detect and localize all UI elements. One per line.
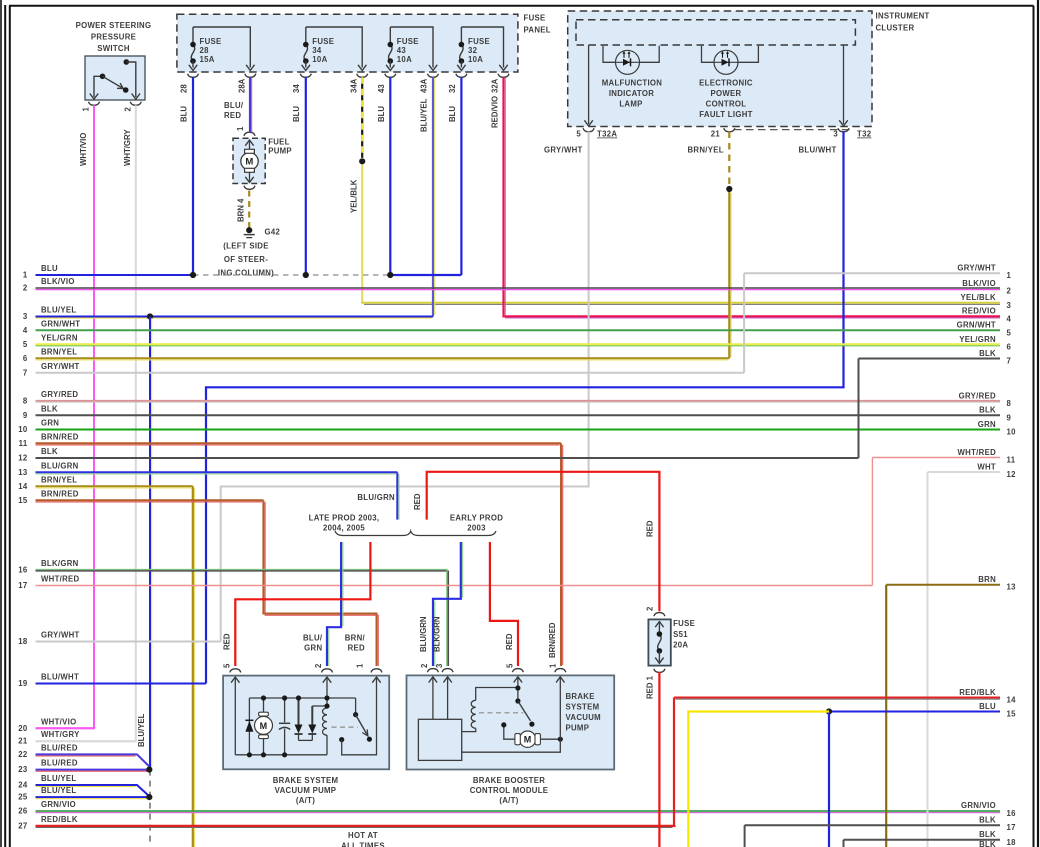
- svg-text:EARLY PROD: EARLY PROD: [450, 514, 503, 523]
- ground rail: [235, 754, 327, 756]
- wire BLK right row 17 to page bottom: [744, 825, 746, 847]
- splice on BRN/YEL: [726, 186, 732, 192]
- svg-text:15: 15: [1007, 710, 1017, 719]
- svg-text:3: 3: [435, 663, 444, 668]
- wire row 7 GRY/WHT (left): [36, 372, 745, 374]
- wire BLU down from splice to page bottom: [828, 712, 830, 847]
- svg-text:11: 11: [1007, 456, 1016, 465]
- svg-text:YEL/BLK: YEL/BLK: [961, 293, 997, 302]
- fuse panel (dashed box): [177, 14, 518, 72]
- svg-text:GRN/VIO: GRN/VIO: [41, 800, 76, 809]
- svg-text:RED: RED: [505, 633, 514, 650]
- svg-text:RED: RED: [224, 111, 241, 120]
- svg-text:14: 14: [18, 482, 28, 491]
- svg-text:5: 5: [506, 663, 515, 668]
- svg-text:32: 32: [448, 84, 457, 93]
- wire row 10 GRN (left): [36, 429, 1001, 431]
- module mech link dashed: [479, 712, 523, 714]
- svg-text:BRN/YEL: BRN/YEL: [688, 146, 724, 155]
- svg-text:5: 5: [576, 130, 581, 139]
- capacitor C1: [284, 698, 286, 722]
- svg-text:GRN: GRN: [978, 420, 996, 429]
- svg-text:BLK: BLK: [979, 406, 996, 415]
- svg-text:16: 16: [18, 566, 28, 575]
- wire row 24 BLU/YEL: [36, 785, 150, 796]
- connector pin 1 of switch: [89, 102, 100, 106]
- svg-text:24: 24: [18, 781, 28, 790]
- svg-text:43: 43: [377, 84, 386, 93]
- svg-text:BLU: BLU: [377, 106, 386, 122]
- svg-text:BLU/YEL: BLU/YEL: [41, 774, 76, 783]
- splice on YEL/BLK: [359, 158, 365, 164]
- svg-text:10A: 10A: [312, 55, 327, 64]
- svg-text:17: 17: [18, 581, 27, 590]
- splice rows 24/25: [146, 794, 152, 800]
- wire BRN/YEL lower to row 6: [728, 192, 730, 358]
- wire WHT/VIO from switch pin 1: [36, 105, 95, 728]
- svg-text:FUSE: FUSE: [468, 37, 490, 46]
- svg-text:BLU/YEL: BLU/YEL: [420, 98, 429, 132]
- pump motor M: [263, 698, 265, 713]
- wire BLU fuse 34 stem: [305, 77, 307, 275]
- svg-text:BLU/YEL: BLU/YEL: [41, 786, 76, 795]
- svg-text:23: 23: [18, 765, 28, 774]
- svg-text:34: 34: [292, 84, 301, 93]
- wire BRN/YEL row14 vertical to page bottom: [192, 486, 194, 847]
- wire YEL/BLK lower (to right row 3): [361, 165, 363, 303]
- wire BLU fuse 32 stem to row 1: [460, 77, 462, 275]
- wire row 25 BLU/YEL: [36, 796, 150, 798]
- connector T32 dashed line: [734, 129, 852, 131]
- wire row 4 GRN/WHT (left): [36, 329, 1001, 331]
- pump pin arrows: [231, 677, 239, 683]
- module pin 5 connector: [512, 669, 523, 673]
- svg-text:VACUUM PUMP: VACUUM PUMP: [275, 786, 337, 795]
- wire row 7 BLK (right): [859, 358, 1001, 360]
- wire WHT riser to page bottom: [927, 472, 929, 847]
- svg-text:RED/BLK: RED/BLK: [41, 815, 78, 824]
- svg-text:CONTROL MODULE: CONTROL MODULE: [470, 786, 549, 795]
- relay coil L1: [326, 677, 328, 706]
- svg-text:2: 2: [1007, 287, 1012, 296]
- svg-text:BLU: BLU: [292, 106, 301, 122]
- module pin 1 connector: [555, 669, 566, 673]
- wire row 18 BLK (right): [844, 839, 1001, 841]
- svg-text:(LEFT SIDE: (LEFT SIDE: [223, 242, 268, 251]
- svg-text:18: 18: [18, 637, 28, 646]
- svg-text:BLU/YEL: BLU/YEL: [137, 713, 146, 747]
- svg-text:2003: 2003: [467, 524, 486, 533]
- svg-text:BLK/GRN: BLK/GRN: [41, 559, 79, 568]
- svg-text:20: 20: [18, 724, 28, 733]
- svg-text:3: 3: [833, 130, 838, 139]
- svg-text:BLK/VIO: BLK/VIO: [41, 277, 75, 286]
- wire row 16 BLK/GRN (green+black): [36, 569, 448, 571]
- wire GRY/WHT right row1 riser to row 7: [743, 273, 745, 373]
- wire BLU/YEL vertical to rows 22-25: [149, 317, 151, 770]
- svg-text:ING COLUMN): ING COLUMN): [218, 269, 274, 278]
- wire RED/BLK riser to row 27: [673, 698, 675, 826]
- svg-text:11: 11: [19, 439, 28, 448]
- svg-text:BLK: BLK: [41, 447, 58, 456]
- zener diode Z2: [311, 706, 313, 725]
- svg-text:12: 12: [1007, 470, 1017, 479]
- junction row1/fuse43: [387, 272, 393, 278]
- top rail: [249, 697, 355, 699]
- svg-text:M: M: [260, 721, 268, 731]
- svg-text:T32: T32: [857, 130, 872, 139]
- module motor right lead to pin1: [540, 738, 560, 740]
- fuse S51 bottom connector: [654, 669, 665, 673]
- row 1 dashed link between fuse stems: [193, 274, 390, 276]
- svg-text:2: 2: [420, 663, 429, 668]
- wire BLK row12 riser to right row 7: [858, 359, 860, 459]
- wire row 3 BLU/YEL (left): [36, 316, 434, 318]
- module pin 2/3 lines into block: [432, 677, 434, 720]
- svg-text:4: 4: [1007, 314, 1012, 323]
- svg-text:BLK: BLK: [979, 840, 996, 847]
- svg-text:BRN/YEL: BRN/YEL: [41, 347, 77, 356]
- instrument cluster inner dashed box: [576, 20, 855, 45]
- svg-text:WHT: WHT: [977, 462, 996, 471]
- svg-text:RED: RED: [413, 493, 422, 510]
- svg-text:G42: G42: [265, 228, 281, 237]
- svg-text:CLUSTER: CLUSTER: [876, 24, 915, 33]
- malfunction indicator lamp: [603, 46, 659, 63]
- module motor M: [519, 731, 535, 747]
- svg-text:YEL/GRN: YEL/GRN: [41, 334, 78, 343]
- fixed contact to pin 1: [342, 677, 377, 755]
- wire row 9 BLK (left): [36, 414, 1001, 416]
- module pin 3 connector: [442, 669, 453, 673]
- svg-text:LATE PROD 2003,: LATE PROD 2003,: [309, 514, 380, 523]
- svg-text:PUMP: PUMP: [566, 724, 590, 733]
- svg-text:LAMP: LAMP: [619, 100, 642, 109]
- svg-text:YEL/BLK: YEL/BLK: [350, 179, 359, 213]
- wire row 17 BLK (right): [745, 824, 1000, 826]
- svg-text:BLK: BLK: [979, 349, 996, 358]
- svg-text:GRY/WHT: GRY/WHT: [544, 146, 583, 155]
- module inner block: [418, 719, 461, 760]
- svg-text:34: 34: [312, 46, 322, 55]
- svg-text:INSTRUMENT: INSTRUMENT: [876, 12, 930, 21]
- svg-text:FUSE: FUSE: [673, 619, 695, 628]
- svg-text:CONTROL: CONTROL: [706, 100, 747, 109]
- junction row3/BLU-YEL riser: [147, 313, 153, 319]
- svg-text:BRN/YEL: BRN/YEL: [41, 475, 77, 484]
- wire row 22 BLU/RED: [36, 754, 150, 766]
- connector pin 2 of switch: [130, 102, 141, 106]
- svg-text:1: 1: [23, 271, 28, 280]
- svg-text:BRN/RED: BRN/RED: [41, 489, 79, 498]
- svg-text:1: 1: [1007, 271, 1012, 280]
- wire row 18 GRY/WHT (left): [36, 641, 221, 643]
- relay switch: [355, 698, 357, 715]
- fuel pump pin 4 connector: [244, 186, 255, 190]
- brake booster control module box: [407, 675, 615, 769]
- wire GRY/WHT from cluster pin 5: [221, 132, 589, 642]
- svg-text:BLU/YEL: BLU/YEL: [41, 306, 76, 315]
- fuel pump pin 1 connector: [244, 132, 255, 136]
- svg-text:6: 6: [1007, 343, 1012, 352]
- svg-text:RED: RED: [646, 520, 655, 537]
- svg-text:OF STEER-: OF STEER-: [224, 255, 268, 264]
- wire YEL/BLK fuse 34A (dashed above splice): [361, 77, 363, 158]
- wire BLU/GRN (late prod) to vacuum pump pin 2: [327, 542, 341, 666]
- svg-text:2: 2: [23, 284, 28, 293]
- svg-text:28: 28: [200, 46, 210, 55]
- svg-text:WHT/VIO: WHT/VIO: [41, 717, 76, 726]
- svg-text:28: 28: [180, 84, 189, 93]
- svg-text:POWER: POWER: [711, 89, 742, 98]
- module coil: [476, 688, 518, 701]
- svg-text:BLU/: BLU/: [224, 101, 244, 110]
- wire BLK/GRN row16 to module pin 3: [446, 570, 448, 667]
- svg-text:1: 1: [356, 663, 365, 668]
- wire BLU/GRN (early prod) to module pin 2: [433, 542, 461, 666]
- wire row 1 GRY/WHT (right): [744, 272, 1000, 274]
- fuse 28 15A: [193, 27, 250, 68]
- fuel pump motor M1: [241, 153, 258, 170]
- svg-text:GRY/WHT: GRY/WHT: [41, 631, 80, 640]
- wire row 20 WHT/VIO (left): [36, 727, 95, 729]
- wire BLU/YEL fuse 43A to row 3: [432, 77, 434, 316]
- svg-text:VACUUM: VACUUM: [566, 713, 601, 722]
- svg-text:BLU/RED: BLU/RED: [41, 759, 78, 768]
- wire BRN 4 (dashed): [248, 191, 250, 229]
- svg-text:WHT/GRY: WHT/GRY: [123, 129, 132, 166]
- zener2 top link: [312, 705, 327, 707]
- svg-text:S51: S51: [673, 630, 688, 639]
- svg-text:BLK: BLK: [979, 816, 996, 825]
- svg-text:(A/T): (A/T): [499, 796, 518, 805]
- svg-text:8: 8: [23, 397, 28, 406]
- svg-text:SYSTEM: SYSTEM: [566, 703, 600, 712]
- cluster pin 3 drop: [843, 45, 845, 124]
- power steering pressure switch box: [85, 56, 145, 100]
- svg-text:GRN/VIO: GRN/VIO: [961, 801, 996, 810]
- svg-text:WHT/VIO: WHT/VIO: [79, 133, 88, 166]
- fuse 34 10A: [306, 27, 362, 68]
- svg-text:GRY/WHT: GRY/WHT: [957, 264, 996, 273]
- svg-text:BLU/GRN: BLU/GRN: [357, 493, 395, 502]
- svg-text:10: 10: [1007, 428, 1017, 437]
- cluster connector pin 21: [724, 128, 735, 132]
- wire RED below fuse S51 to page bottom: [658, 672, 660, 847]
- svg-text:7: 7: [1007, 357, 1012, 366]
- dashed continuation below splices: [149, 770, 151, 846]
- module pin 2 connector: [427, 669, 438, 673]
- svg-text:BLK: BLK: [41, 404, 58, 413]
- wire WHT/GRY from switch pin 2: [36, 105, 136, 741]
- wire RED (late prod) to vacuum pump pin 5: [235, 542, 370, 666]
- svg-text:BRN 4: BRN 4: [237, 198, 246, 222]
- pin5 line to ground rail: [234, 677, 236, 755]
- svg-text:FUSE: FUSE: [312, 37, 334, 46]
- svg-text:28A: 28A: [238, 78, 247, 93]
- wire YEL from splice to page bottom: [688, 712, 829, 847]
- module motor left lead with contact: [504, 728, 515, 740]
- svg-text:BLU/WHT: BLU/WHT: [799, 146, 837, 155]
- cluster connector pin 3: [838, 128, 849, 132]
- svg-text:WHT/GRY: WHT/GRY: [41, 730, 80, 739]
- wire row 14 RED/BLK (right): [674, 697, 1000, 699]
- svg-text:1: 1: [82, 107, 91, 112]
- wire row 21 WHT/GRY (left): [36, 740, 136, 742]
- wire row 13 BRN (right): [886, 584, 1000, 586]
- svg-text:14: 14: [1007, 696, 1017, 705]
- wire row 8 GRY/RED (red+gray stripe): [36, 400, 1001, 402]
- svg-text:BLK: BLK: [979, 830, 996, 839]
- svg-text:9: 9: [23, 411, 28, 420]
- svg-text:15A: 15A: [200, 55, 215, 64]
- wire BLU fuse 28 stem: [192, 77, 194, 275]
- svg-text:1: 1: [236, 126, 245, 131]
- svg-text:3: 3: [23, 312, 28, 321]
- wire row 15 BRN/RED (left): [36, 499, 264, 501]
- svg-text:BRN: BRN: [978, 575, 996, 584]
- svg-text:27: 27: [18, 821, 27, 830]
- svg-text:BRN/RED: BRN/RED: [41, 432, 79, 441]
- svg-text:BLU: BLU: [41, 264, 58, 273]
- wire row 15 BLU (right): [829, 711, 1000, 713]
- svg-text:BRAKE BOOSTER: BRAKE BOOSTER: [473, 776, 545, 785]
- fuel pump dashed box: [233, 138, 265, 183]
- svg-text:9: 9: [1007, 413, 1012, 422]
- pump pin 5 connector: [230, 669, 241, 673]
- svg-text:GRN/WHT: GRN/WHT: [41, 319, 80, 328]
- svg-text:17: 17: [1007, 823, 1016, 832]
- svg-text:4: 4: [23, 326, 28, 335]
- svg-text:13: 13: [18, 468, 28, 477]
- svg-text:34A: 34A: [350, 78, 359, 93]
- svg-text:RED: RED: [223, 633, 232, 650]
- coil bumps: [323, 708, 328, 735]
- svg-text:PANEL: PANEL: [524, 26, 551, 35]
- svg-text:5: 5: [223, 663, 232, 668]
- svg-text:16: 16: [1007, 809, 1017, 818]
- switch contacts inside power steering switch: [94, 76, 103, 97]
- svg-text:FAULT LIGHT: FAULT LIGHT: [699, 110, 752, 119]
- svg-text:BLU: BLU: [180, 106, 189, 122]
- svg-text:WHT/RED: WHT/RED: [958, 448, 997, 457]
- junction row1/fuse28: [190, 272, 196, 278]
- wire row 12 WHT (right): [928, 471, 1001, 473]
- svg-text:BLU: BLU: [448, 106, 457, 122]
- svg-text:6: 6: [23, 354, 28, 363]
- electronic power control fault light: [702, 46, 759, 63]
- svg-text:RED 1: RED 1: [646, 675, 655, 699]
- wire row 2 BLK/VIO (left, black+violet stripe): [36, 287, 1001, 289]
- wire row 6 BRN/YEL (left): [36, 357, 730, 359]
- svg-text:RED/BLK: RED/BLK: [959, 688, 996, 697]
- fuse 43 10A: [390, 27, 433, 68]
- module switch: [517, 677, 519, 701]
- instrument cluster outer box: [568, 11, 872, 127]
- page border frame: [0, 0, 2, 847]
- fuse S51 top connector: [654, 613, 665, 617]
- wire row 13 BLU/GRN (left): [36, 471, 398, 473]
- svg-text:POWER STEERING: POWER STEERING: [76, 21, 152, 30]
- splice rows 22/23: [146, 767, 152, 773]
- svg-text:BLU/RED: BLU/RED: [41, 743, 78, 752]
- svg-text:2: 2: [124, 107, 133, 112]
- wire BRN riser to page bottom: [885, 585, 887, 847]
- svg-text:5: 5: [1007, 328, 1012, 337]
- wire WHT/RED riser to right row 11: [871, 458, 873, 586]
- svg-text:BRN/: BRN/: [345, 633, 366, 642]
- svg-text:RED/VIO: RED/VIO: [491, 96, 500, 128]
- svg-text:10A: 10A: [397, 55, 412, 64]
- wire row 11 WHT/RED (right): [872, 457, 1000, 459]
- zener diode Z1: [298, 698, 300, 725]
- svg-text:PUMP: PUMP: [268, 147, 292, 156]
- svg-text:T32A: T32A: [597, 130, 617, 139]
- svg-text:(A/T): (A/T): [296, 796, 315, 805]
- svg-text:INDICATOR: INDICATOR: [609, 89, 654, 98]
- row 1 solid link to fuse 32 stem: [390, 274, 461, 276]
- svg-text:12: 12: [18, 454, 28, 463]
- svg-text:15: 15: [18, 496, 28, 505]
- svg-text:18: 18: [1007, 838, 1017, 847]
- wire row 5 YEL/GRN (yellow+green stripe): [36, 343, 1001, 345]
- svg-text:19: 19: [18, 679, 28, 688]
- svg-text:1: 1: [549, 663, 558, 668]
- splice right row 15: [826, 708, 832, 714]
- pump pin 2 connector: [322, 669, 333, 673]
- svg-text:GRN: GRN: [304, 643, 322, 652]
- wire row 27 RED/BLK: [36, 825, 675, 827]
- svg-text:MALFUNCTION: MALFUNCTION: [602, 79, 663, 88]
- svg-text:32: 32: [468, 46, 478, 55]
- svg-text:HOT AT: HOT AT: [348, 831, 378, 840]
- svg-text:8: 8: [1007, 399, 1012, 408]
- svg-text:BRAKE SYSTEM: BRAKE SYSTEM: [273, 776, 339, 785]
- svg-text:FUSE: FUSE: [397, 37, 419, 46]
- wire row 12 BLK (left): [36, 457, 859, 459]
- svg-text:13: 13: [1007, 583, 1017, 592]
- svg-text:BRN/RED: BRN/RED: [548, 622, 557, 658]
- wire BRN/RED row15 to vacuum pump pin 1: [263, 500, 376, 666]
- svg-text:43A: 43A: [420, 78, 429, 93]
- svg-text:YEL/GRN: YEL/GRN: [959, 335, 996, 344]
- svg-text:21: 21: [18, 737, 28, 746]
- wire row 23 BLU/RED: [36, 769, 150, 771]
- svg-text:5: 5: [23, 340, 28, 349]
- wire BLU/RED fuse 28A to fuel pump: [249, 77, 251, 132]
- wire row 1 BLU (left): [36, 274, 194, 276]
- fuse S51 box: [648, 619, 670, 665]
- svg-text:10A: 10A: [468, 55, 483, 64]
- svg-text:GRY/RED: GRY/RED: [41, 390, 78, 399]
- svg-text:BLU/GRN: BLU/GRN: [419, 616, 428, 652]
- wire row 19 BLU/WHT (left): [36, 683, 207, 685]
- svg-text:10: 10: [18, 425, 28, 434]
- pump pin 1 connector: [371, 669, 382, 673]
- svg-text:21: 21: [711, 130, 721, 139]
- wire row 26 GRN/VIO: [36, 810, 1001, 812]
- svg-text:GRY/RED: GRY/RED: [959, 391, 996, 400]
- brake system vacuum pump box: [223, 676, 389, 770]
- svg-text:BLU/GRN: BLU/GRN: [41, 461, 79, 470]
- svg-text:GRY/WHT: GRY/WHT: [41, 362, 80, 371]
- fuse 32 10A: [461, 27, 503, 68]
- svg-text:BLU/: BLU/: [303, 633, 323, 642]
- svg-text:25: 25: [18, 793, 28, 802]
- mechanical link (dashed): [332, 726, 358, 728]
- ground G42: [246, 227, 252, 233]
- svg-text:ALL TIMES: ALL TIMES: [341, 842, 385, 847]
